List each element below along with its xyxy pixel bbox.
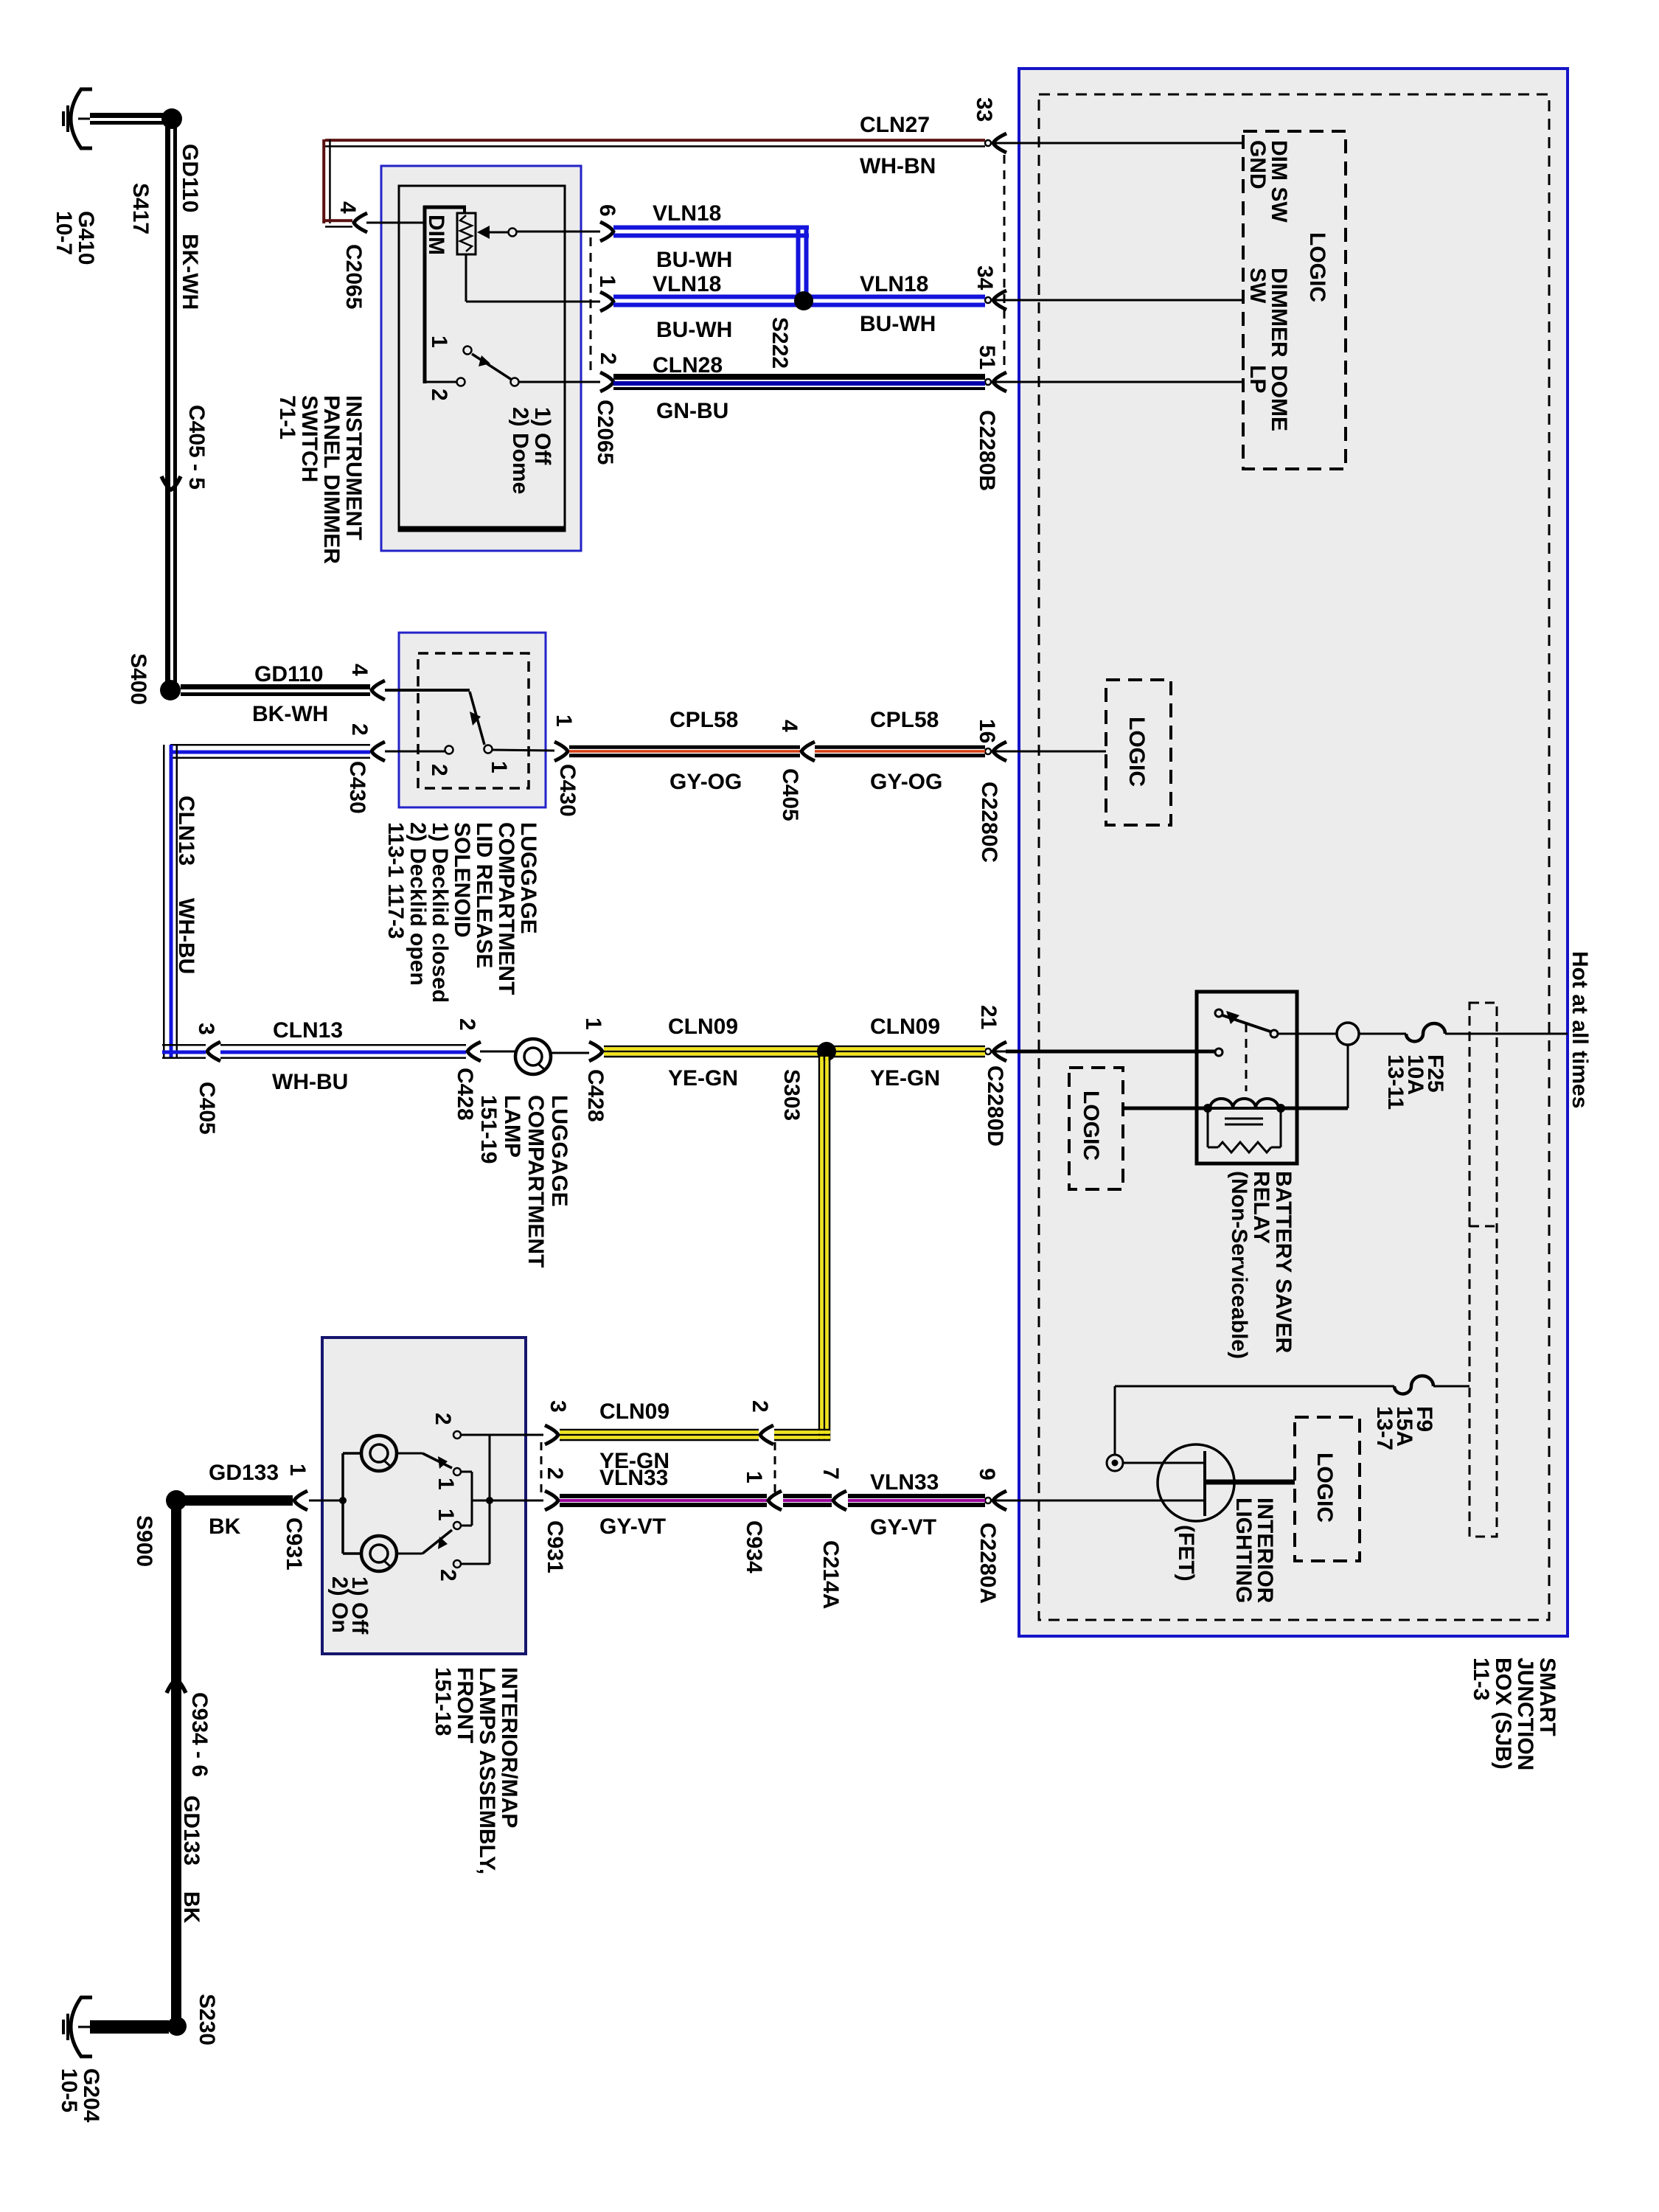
connector C428 pin 2 arrow [467, 1042, 481, 1061]
wire gate ring to FET bar [1123, 1462, 1203, 1464]
svg-text:LOGIC: LOGIC [1124, 717, 1149, 787]
wire CLN28 GN-BU [613, 374, 985, 380]
solenoid switch lead from pin 4 [385, 689, 470, 692]
junction S222 [794, 291, 813, 310]
svg-text:2: 2 [596, 352, 620, 365]
wire VLN33 GY-VT C931 to C934 [560, 1494, 767, 1498]
svg-text:GD133: GD133 [179, 1795, 204, 1865]
wire GD133 BK S900 to C931 [181, 1495, 293, 1506]
wire CLN27 WH-BN horizontal [325, 139, 985, 142]
wire CLN09 YE-GN bottom horizontal [774, 1429, 830, 1431]
svg-text:33: 33 [972, 97, 996, 122]
svg-text:C2280B: C2280B [975, 410, 999, 491]
wire pin1 into lamps bus [309, 1500, 343, 1502]
FET gate terminal ring [1107, 1455, 1123, 1471]
dimmer wiper arrow [477, 226, 490, 239]
logic box LOGIC3 (battery saver) [1069, 1068, 1123, 1189]
connector C931 pin 1 arrow [294, 1491, 307, 1510]
svg-text:GD110: GD110 [254, 662, 323, 686]
lamp switch bottom contact 2 [453, 1560, 461, 1568]
wire switch arm to pin 2 [518, 381, 600, 383]
wire relay coil right to power circle [1281, 1107, 1348, 1110]
fuse F9 [1394, 1376, 1433, 1394]
logic box LOGIC1 (dim sw gnd / dimmer sw / dome lp) [1243, 131, 1346, 469]
svg-text:GY-OG: GY-OG [870, 770, 942, 794]
svg-text:S400: S400 [126, 653, 150, 705]
svg-text:VLN18: VLN18 [653, 201, 721, 226]
lamp switch top arm [397, 1453, 422, 1455]
svg-text:C931: C931 [543, 1520, 567, 1573]
luggage compartment lamp E1 [515, 1039, 551, 1074]
connector C405 pin 3 arrow [207, 1042, 220, 1061]
junction S303 [817, 1042, 836, 1061]
svg-text:C2280D: C2280D [983, 1065, 1007, 1147]
relay coil core lines [1225, 1118, 1263, 1120]
wire contact 2 to pin 2 [385, 751, 445, 753]
wire VLN18 BU-WH pin6 vertical drop [796, 226, 801, 302]
logic box LOGIC4 (interior lighting) [1295, 1417, 1360, 1561]
battery saver relay K1 box [1197, 992, 1297, 1164]
svg-text:CPL58: CPL58 [870, 708, 939, 732]
logic box LOGIC2 (decklid) [1106, 680, 1171, 825]
fuse F25 [1406, 1023, 1445, 1041]
svg-text:2: 2 [427, 389, 451, 401]
lamp switch bottom arm [397, 1553, 422, 1555]
svg-text:YE-GN: YE-GN [668, 1066, 738, 1091]
wire wiper terminal to pin 6 [517, 231, 600, 233]
svg-text:CLN13: CLN13 [273, 1018, 343, 1043]
svg-text:CLN09: CLN09 [599, 1399, 669, 1424]
wire CPL58 GY-OG segment B [815, 745, 985, 749]
wire pin33 to LOGIC1 [1006, 142, 1243, 145]
svg-text:CLN28: CLN28 [653, 353, 723, 378]
wire VLN18 BU-WH pin1 to S222 to pin34 [613, 295, 985, 299]
svg-text:GY-VT: GY-VT [870, 1515, 936, 1540]
svg-text:S417: S417 [128, 183, 153, 234]
solenoid switch arm [470, 692, 484, 745]
dimmer dome switch arm [511, 378, 519, 386]
dimmer wiper terminal circle [509, 229, 517, 237]
SJB pin 16 connector C2280C [985, 748, 991, 754]
ground G204 [71, 1997, 92, 2056]
interior map lamps assembly box [322, 1338, 526, 1654]
SJB pin 9 connector C2280A [985, 1498, 991, 1503]
svg-text:WH-BU: WH-BU [272, 1070, 348, 1094]
svg-text:C428: C428 [583, 1069, 608, 1122]
solenoid inner dashed rect [418, 653, 529, 788]
svg-text:GY-VT: GY-VT [599, 1514, 666, 1539]
svg-text:C405 - 5: C405 - 5 [184, 405, 209, 490]
svg-text:BU-WH: BU-WH [656, 318, 732, 342]
wire CLN13 WH-BU corner stub [162, 1044, 206, 1046]
svg-text:CLN27: CLN27 [860, 113, 930, 137]
relay switch contact top-left [1215, 1009, 1222, 1017]
connector C430 pin 2 arrow [372, 742, 385, 761]
svg-text:WH-BU: WH-BU [174, 898, 198, 974]
wire contact 1 to pin 1 [493, 750, 554, 751]
dashed connector line C934 [774, 1442, 776, 1494]
svg-text:1: 1 [434, 1478, 458, 1490]
dashed connector line C2065 [590, 237, 592, 376]
svg-text:34: 34 [973, 265, 997, 291]
wire CPL58 GY-OG segment A [569, 745, 800, 749]
solenoid contact 2 circle [445, 746, 453, 754]
svg-text:2: 2 [436, 1569, 460, 1582]
connector C428 pin 1 arrow [589, 1042, 602, 1061]
svg-text:S230: S230 [195, 1994, 219, 2045]
relay switch arm [1222, 1015, 1270, 1032]
junction S900 [166, 1490, 187, 1511]
relay suppression resistor R1 [1207, 1108, 1209, 1147]
svg-text:CLN13: CLN13 [174, 796, 198, 866]
instrument panel dimmer switch box [381, 166, 581, 551]
svg-text:9: 9 [975, 1468, 999, 1481]
connector C934 pin 6 arrow [167, 1680, 186, 1693]
connector C430 pin 1 arrow [554, 742, 568, 761]
svg-text:DIM: DIM [424, 215, 448, 255]
svg-text:C934: C934 [742, 1520, 766, 1573]
wire pin34 to LOGIC1 [1006, 299, 1243, 302]
svg-text:LOGIC: LOGIC [1312, 1453, 1337, 1523]
svg-text:C2280C: C2280C [977, 782, 1001, 863]
lamp switch top contact 1 [453, 1468, 461, 1475]
wire relay to power distribution circle [1278, 1033, 1337, 1035]
connector C405 pin 5 arrow [161, 476, 181, 490]
connector C2065 pin 4 arrow [354, 213, 367, 232]
solenoid contact 1 circle [484, 745, 493, 754]
wire GD110 BK-WH vertical S417 to S400 [165, 127, 170, 682]
map lamp E2 [361, 1436, 397, 1471]
transistor Q1 FET circle [1158, 1444, 1234, 1521]
svg-text:2: 2 [427, 764, 451, 776]
svg-text:C430: C430 [345, 761, 369, 814]
connector C2065 pin 6 arrow [600, 222, 613, 241]
map lamp E3 [361, 1536, 397, 1571]
dimmer resistor lower lead to pin 1 [465, 254, 467, 302]
SJB pin 34 [985, 297, 991, 303]
SJB pin 33 connector C2280B [985, 140, 991, 146]
wire CLN27 WH-BN vertical [322, 139, 325, 223]
wire pin9 to FET source [1006, 1500, 1203, 1502]
svg-text:YE-GN: YE-GN [870, 1066, 940, 1091]
svg-text:2: 2 [455, 1018, 479, 1031]
wire F9 to fuse bus [1433, 1385, 1470, 1388]
FET channel bar [1203, 1451, 1206, 1516]
svg-text:C2065: C2065 [593, 400, 617, 465]
svg-text:INTERIORLIGHTING: INTERIORLIGHTING [1231, 1498, 1277, 1604]
svg-text:C430: C430 [555, 764, 580, 817]
svg-text:4: 4 [347, 664, 372, 676]
svg-text:LOGIC: LOGIC [1079, 1091, 1103, 1161]
svg-text:C214A: C214A [818, 1540, 843, 1609]
lamps left bus [343, 1452, 361, 1455]
wire CLN27 WH-BN lower horizontal to pin 4 [325, 219, 352, 222]
connector C934 pin 1 arrow [768, 1491, 782, 1510]
relay armature dashed link [1245, 1023, 1248, 1091]
dimmer rheostat lead (thick) [423, 206, 427, 383]
connector C214A pin 7 arrow [833, 1491, 846, 1510]
dashed connector line C2280B [1004, 155, 1006, 370]
svg-text:BU-WH: BU-WH [860, 312, 936, 336]
svg-text:GD110: GD110 [178, 144, 202, 212]
svg-text:BK-WH: BK-WH [178, 234, 202, 310]
svg-text:3: 3 [546, 1400, 570, 1413]
dimmer rheostat DIM resistor [457, 213, 476, 254]
svg-text:1: 1 [581, 1018, 605, 1030]
svg-text:C428: C428 [453, 1068, 477, 1121]
wire lamp to C428 pin 1 [551, 1052, 589, 1054]
svg-text:1: 1 [595, 275, 619, 288]
dimmer dome switch contact 2 [425, 381, 456, 383]
dashed connector line C931 [540, 1442, 543, 1494]
wire pin51 to LOGIC1 [1006, 381, 1243, 383]
wire pin16 to LOGIC2 [1006, 751, 1106, 753]
wire VLN18 BU-WH pin6 horizontal [613, 226, 809, 230]
connector C934 pin 2 arrow [760, 1425, 773, 1444]
svg-text:C2065: C2065 [341, 244, 366, 309]
wire CLN13 WH-BU from pin2 C430 left [170, 744, 370, 746]
wire relay coil to LOGIC3 (thick) [1123, 1107, 1208, 1110]
fuse bus dashed rectangle [1470, 1003, 1497, 1537]
svg-text:1: 1 [742, 1471, 766, 1484]
svg-text:Hot at all times: Hot at all times [1568, 951, 1592, 1108]
SJB inner dashed border [1039, 94, 1549, 1620]
wire GD110 BK-WH S400 to C430 [181, 684, 370, 689]
luggage compartment lid release solenoid box [399, 633, 546, 807]
smart junction box SJB outline [1019, 69, 1568, 1636]
svg-text:S303: S303 [779, 1069, 804, 1121]
svg-text:1: 1 [285, 1464, 310, 1476]
relay coil L1 [1208, 1107, 1281, 1110]
svg-text:C931: C931 [282, 1517, 306, 1571]
svg-text:S222: S222 [768, 317, 792, 369]
wire VLN33 GY-VT C934 to C214A [783, 1494, 832, 1498]
junction S400 [160, 680, 181, 700]
svg-text:GN-BU: GN-BU [656, 399, 728, 423]
power node circle [1337, 1023, 1359, 1045]
svg-text:1: 1 [427, 335, 451, 348]
svg-text:21: 21 [976, 1005, 1001, 1029]
svg-text:VLN18: VLN18 [653, 272, 721, 296]
svg-text:BU-WH: BU-WH [656, 248, 732, 272]
connector C2065 pin 1 arrow [600, 292, 613, 311]
wire CLN09 YE-GN vertical S303 down [818, 1057, 821, 1441]
SJB pin 51 [985, 379, 991, 385]
wire gate ring up to fuse F9 [1114, 1386, 1116, 1455]
svg-text:GD133: GD133 [209, 1461, 279, 1485]
lamp switch top contact 2 [453, 1431, 461, 1439]
connector C931 pin 2 arrow [545, 1491, 558, 1510]
svg-text:GY-OG: GY-OG [669, 770, 742, 794]
wire pin21 to relay (thick) [1006, 1050, 1215, 1054]
svg-text:4: 4 [777, 720, 801, 732]
svg-text:BK: BK [209, 1514, 241, 1539]
svg-text:7: 7 [818, 1467, 843, 1480]
svg-text:C934 - 6: C934 - 6 [187, 1692, 212, 1777]
junction S230 [167, 2017, 187, 2036]
connector C430 pin 4 arrow [372, 681, 385, 700]
wire CLN09 YE-GN C931 to C934 [560, 1429, 759, 1431]
svg-text:CLN09: CLN09 [668, 1015, 738, 1039]
wire GD110 BK-WH ground to S417 [90, 113, 164, 118]
wire VLN33 GY-VT C214A to pin 9 [848, 1494, 985, 1498]
svg-text:2: 2 [431, 1413, 455, 1425]
svg-text:S900: S900 [132, 1515, 156, 1567]
wire S230 to ground G204 [90, 2020, 169, 2034]
svg-text:3: 3 [194, 1023, 218, 1035]
svg-text:(FET): (FET) [1174, 1525, 1198, 1582]
svg-text:51: 51 [975, 345, 999, 369]
svg-text:CLN09: CLN09 [870, 1015, 940, 1039]
svg-text:VLN33: VLN33 [599, 1466, 668, 1490]
connector C405 pin 4 arrow (CPL58) [801, 742, 815, 761]
dimmer dome switch contact 1 [464, 347, 472, 355]
relay coil junction dots [1203, 1104, 1212, 1113]
svg-text:4: 4 [335, 201, 360, 214]
svg-text:6: 6 [595, 204, 619, 217]
wire F25 to hot bus [1445, 1033, 1568, 1035]
contact 1 bracket [461, 1471, 472, 1473]
svg-text:WH-BN: WH-BN [860, 154, 936, 178]
svg-text:1: 1 [552, 714, 576, 727]
SJB pin 21 connector C2280D [985, 1048, 991, 1054]
wire CLN13 WH-BU vertical [163, 745, 165, 1059]
svg-text:LOGIC: LOGIC [1305, 232, 1329, 302]
ground G410 [71, 89, 92, 148]
wire C428 pin2 to lamp [480, 1051, 515, 1053]
relay switch contact left-mid [1215, 1048, 1222, 1056]
svg-text:16: 16 [975, 719, 999, 743]
svg-text:1: 1 [434, 1509, 458, 1521]
svg-text:2: 2 [543, 1467, 567, 1480]
svg-text:2: 2 [347, 723, 372, 736]
svg-text:C405: C405 [778, 768, 802, 821]
svg-text:1) Off2) On: 1) Off2) On [327, 1576, 372, 1635]
svg-text:BK-WH: BK-WH [252, 702, 328, 726]
wire CLN13 WH-BU horizontal to C428 [220, 1044, 466, 1046]
connector C2065 pin 2 arrow [600, 372, 613, 392]
svg-text:CPL58: CPL58 [669, 708, 738, 732]
wire CLN09 YE-GN C428 to S303 to pin21 [604, 1046, 985, 1048]
lamp switch bottom contact 1 [453, 1522, 461, 1529]
connector C931 pin 3 arrow [545, 1425, 558, 1444]
svg-text:C405: C405 [195, 1082, 219, 1135]
svg-text:1: 1 [487, 761, 511, 773]
wire power circle to fuse F25 [1359, 1033, 1406, 1035]
svg-text:2: 2 [748, 1400, 772, 1413]
junction S417 [161, 108, 182, 129]
svg-text:C2280A: C2280A [975, 1523, 1000, 1604]
contact 2 bus [461, 1434, 543, 1436]
FET drain to LOGIC4 (thick) [1206, 1480, 1295, 1485]
wire GD133 BK vertical [171, 1508, 181, 2020]
svg-text:VLN33: VLN33 [870, 1470, 939, 1495]
output line to pin 2 [472, 1500, 543, 1502]
svg-text:VLN18: VLN18 [860, 272, 928, 296]
svg-text:BK: BK [179, 1891, 204, 1924]
relay switch contact right [1270, 1030, 1278, 1037]
